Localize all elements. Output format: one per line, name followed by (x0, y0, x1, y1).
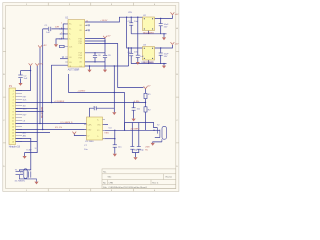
regulator U3 row2 (143, 47, 155, 61)
wire: ICL cs net (16, 129, 87, 131)
row2 right cap plates (159, 52, 163, 54)
svg-text:+9V: +9V (43, 45, 47, 47)
svg-text:ICL CS: ICL CS (55, 127, 63, 129)
vertical B from series cap wire corner down to ICS wire (42, 29, 44, 130)
svg-text:Hz: Hz (145, 149, 148, 151)
gnd row1 (162, 37, 166, 40)
wire under caps (85, 61, 105, 63)
vertical A from V port down to ICL gate wire (39, 48, 41, 124)
gnd xtal right (151, 143, 155, 146)
svg-text:IN+: IN+ (69, 24, 72, 26)
svg-text:12: 12 (12, 123, 14, 125)
svg-text:GND PLANE: GND PLANE (141, 61, 154, 64)
svg-text:22R: 22R (55, 27, 59, 29)
gnd bottom-left 2 (34, 182, 38, 185)
connector P1 (9, 88, 16, 145)
V1 power port (29, 63, 33, 65)
svg-text:-4.096V: -4.096V (78, 91, 86, 93)
row1 right cap plates (159, 23, 163, 25)
gnd arrows below caps cluster (87, 70, 91, 73)
svg-text:5: 5 (13, 102, 14, 104)
crystal Y1 bottom-left (16, 169, 37, 182)
wire: connector pin1 to vertical up to VCC V1 (16, 66, 31, 91)
IC2 loop series cap (93, 106, 95, 110)
gnd IC2 loop (112, 112, 116, 115)
U1 pin number marks (61, 21, 88, 40)
wire: connector long net to divider (16, 102, 146, 104)
left pins bus to gnd (56, 24, 63, 44)
wire: ICL gate net (16, 124, 87, 125)
svg-text:32.768kHz: 32.768kHz (15, 181, 25, 183)
svg-text:Revise: Revise (166, 176, 173, 178)
connector net stubs labels (23, 96, 28, 137)
regulator U2 row1 (143, 17, 155, 31)
left cap branch from V1 rail (21, 70, 31, 72)
svg-text:1uF: 1uF (46, 32, 50, 34)
svg-text:10: 10 (12, 117, 14, 119)
middle column verticals (114, 48, 128, 108)
svg-text:24.5MHZ: 24.5MHZ (131, 128, 141, 130)
svg-text:14: 14 (12, 129, 14, 131)
IC U4 (charge pump) (87, 117, 103, 140)
svg-text:24: 24 (86, 21, 88, 23)
cap C1 series at IC pin2 (48, 27, 50, 31)
svg-text:ICSP: ICSP (27, 150, 33, 152)
svg-text:4: 4 (61, 32, 62, 34)
xtal caps (130, 146, 134, 148)
svg-text:9: 9 (13, 114, 14, 116)
net wire -4.096V down to ICL (69, 74, 125, 93)
svg-text:Rev: 4: Rev: 4 (152, 182, 159, 184)
connector pin stubs (16, 91, 23, 142)
gnd bottom-left 1 (23, 156, 27, 159)
svg-text:3: 3 (13, 96, 14, 98)
svg-text:18: 18 (12, 141, 14, 143)
svg-text:RF: RF (80, 30, 82, 32)
IC2 loop over top (90, 108, 115, 119)
svg-text:6: 6 (13, 105, 14, 107)
IC2 out cap (113, 144, 117, 146)
svg-text:ICL GATE D: ICL GATE D (61, 121, 73, 124)
branch down to row2 (127, 17, 143, 48)
svg-text:+5V: +5V (175, 44, 179, 46)
svg-text:4: 4 (13, 99, 14, 101)
svg-text:+14.8V: +14.8V (100, 20, 108, 22)
row2 right cap (160, 48, 162, 64)
svg-text:78C06MPX: 78C06MPX (143, 32, 155, 34)
svg-text:ICL7660: ICL7660 (85, 141, 94, 143)
svg-text:1uF: 1uF (24, 78, 28, 80)
svg-text:SDI: SDI (23, 105, 26, 107)
V port on vertical A (38, 45, 42, 47)
svg-text:15: 15 (12, 132, 14, 134)
gnd row2 (162, 66, 166, 69)
big IC lower right pin wire across (85, 65, 129, 67)
divider stack at right (145, 89, 147, 131)
op-amp U1 big IC (68, 20, 85, 67)
xtal bottom wire to gnd (153, 142, 162, 143)
row2 out wire (155, 45, 173, 48)
left pin small comp at 58.7 (60, 58, 68, 60)
svg-text:1: 1 (13, 90, 14, 92)
xtal caps to gnd (132, 149, 139, 152)
row2 mid cap plates (136, 54, 140, 56)
divider tap cap (132, 107, 136, 109)
row2 left cap plates (129, 52, 133, 54)
gnd xtal caps (133, 157, 137, 160)
inner border frame (6, 6, 176, 189)
crystal Y2 right (158, 126, 167, 141)
svg-text:13: 13 (12, 126, 14, 128)
caps cluster under IC right (93, 54, 97, 56)
connector pin numbers (12, 90, 14, 143)
mid cap at 137.8 from VIN wire (137, 17, 139, 62)
small comp at U1 left pin (60, 45, 65, 47)
svg-text:4.99k: 4.99k (134, 101, 140, 103)
svg-text:16V: 16V (164, 56, 168, 58)
xtal area loop (125, 123, 158, 131)
svg-text:+6V: +6V (175, 14, 179, 16)
svg-text:No.: No. (103, 171, 107, 173)
zone ticks top (3, 3, 179, 192)
cap left of V1 (18, 74, 22, 76)
sheet background (0, 0, 200, 196)
svg-text:V+: V+ (69, 34, 71, 36)
row1 left cap plates (129, 22, 133, 24)
svg-text:CAP+: CAP+ (88, 123, 92, 126)
svg-text:1uF: 1uF (140, 56, 144, 58)
svg-text:V+: V+ (97, 119, 99, 121)
row2 bottom rail (131, 63, 166, 65)
row1 right cap (160, 18, 162, 33)
svg-text:C:\ESD\SchDoc\CLK-SCH tek3ex: C:\ESD\SchDoc\CLK-SCH tek3ex Sheet1 (108, 186, 147, 189)
svg-text:Header 18: Header 18 (9, 146, 21, 149)
svg-text:2: 2 (61, 22, 62, 24)
gnd divider tap cap (132, 119, 136, 122)
svg-text:8: 8 (13, 111, 14, 113)
left pin 65.2 down vertical (52, 65, 69, 102)
wire: connector mid stubs (16, 108, 38, 110)
row2 left cap (130, 48, 132, 64)
svg-text:3: 3 (61, 27, 62, 29)
svg-text:AD7730BR: AD7730BR (68, 68, 80, 71)
vertical from VCC V2 down (36, 66, 38, 142)
svg-text:VIN: VIN (128, 12, 132, 14)
V port over divider (144, 86, 148, 88)
gnd arrow below IC left pins (54, 44, 58, 47)
V port over row1 out (171, 12, 175, 14)
U1 right pin stubs (64, 24, 87, 62)
svg-text:VSS: VSS (104, 132, 109, 134)
caps cluster top wire (85, 52, 105, 54)
svg-text:16: 16 (12, 135, 14, 137)
svg-text:17: 17 (12, 138, 14, 140)
svg-text:25M: 25M (145, 147, 149, 149)
wire: bottom pins to xtal / gnd (16, 139, 31, 172)
big IC pin1 right long wire to regulators (85, 17, 143, 22)
svg-text:+5V: +5V (107, 35, 111, 37)
tap cap to gnd (133, 103, 135, 119)
V2 power port (35, 63, 39, 65)
svg-text:7: 7 (13, 108, 14, 110)
gnd IC2 pin3 (113, 154, 117, 157)
gnd mid cap row2 (136, 62, 140, 65)
bottom-left xtal series cap (28, 171, 30, 177)
svg-text:16V: 16V (164, 26, 168, 28)
svg-text:+2.5VREF: +2.5VREF (54, 101, 65, 103)
row1 bottom rail (131, 33, 166, 35)
no-erc marks at U1 pins (60, 24, 90, 58)
V port over row2 out (171, 42, 175, 44)
title block (102, 169, 176, 189)
row1 out wire (155, 15, 173, 18)
gnd arrow below left cap (18, 83, 22, 86)
svg-text:5: 5 (61, 37, 62, 39)
svg-text:11: 11 (12, 120, 14, 122)
V port over caps cluster (103, 36, 107, 38)
row1 left cap (130, 17, 132, 34)
svg-text:CHN: CHN (108, 182, 113, 184)
wire: series cap into IC pin2 (43, 28, 68, 30)
svg-text:2: 2 (13, 93, 14, 95)
big IC right mid pin cluster to V port vertical (85, 39, 118, 44)
U1 pin name marks (69, 24, 83, 68)
svg-text:REF+4.096: REF+4.096 (40, 107, 42, 119)
zone labels (3, 4, 178, 192)
red V near IC2 pin3 (72, 132, 76, 134)
svg-text:AN2: AN2 (23, 134, 27, 137)
svg-text:+5V: +5V (39, 64, 43, 66)
svg-text:+5V: +5V (147, 86, 151, 88)
